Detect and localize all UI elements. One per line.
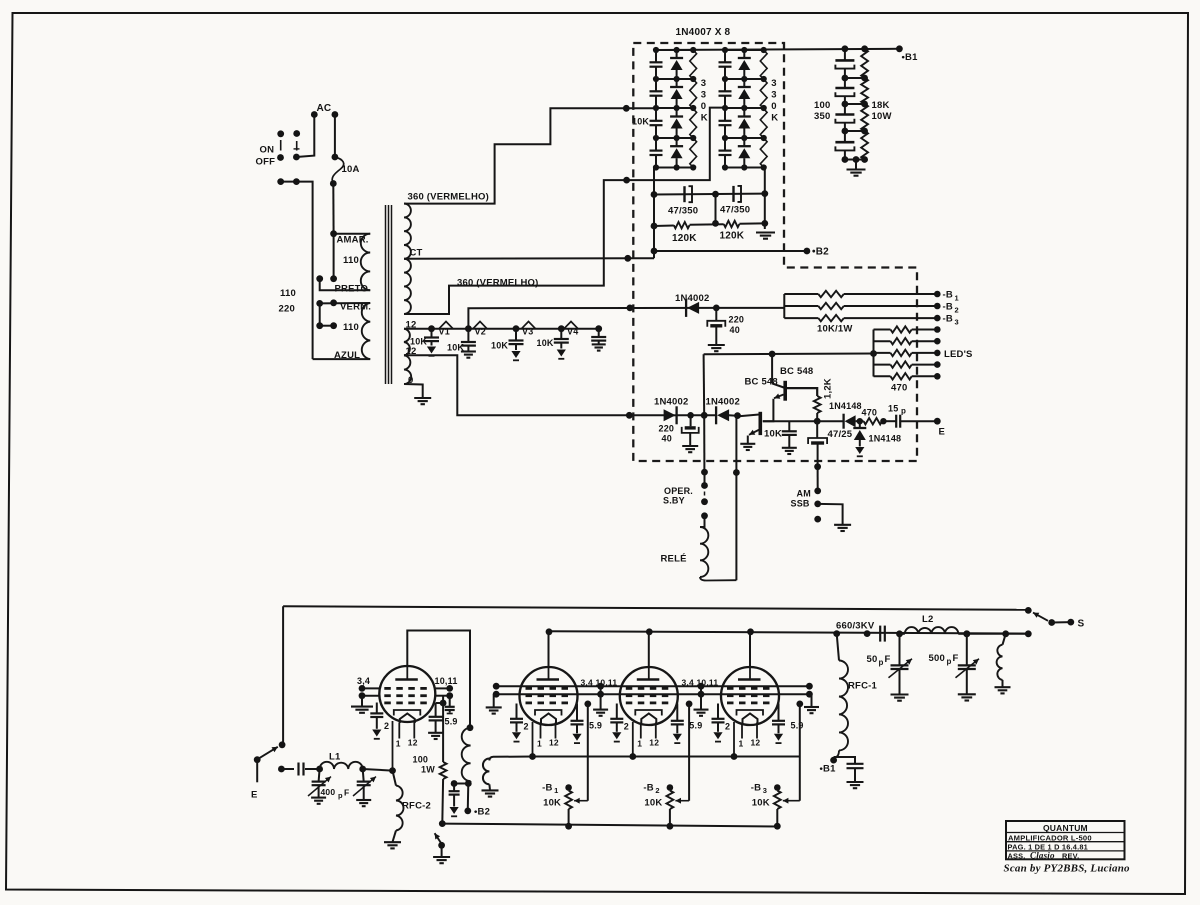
svg-text:10A: 10A [342,164,360,175]
node rectifier column 2 dots [722,47,728,53]
node LED R4 terminal [934,361,941,368]
wire L2 to output [967,633,1029,635]
capacitor 47/350 C5 [683,186,685,202]
ground grid rail left [486,706,502,708]
wire bias bus [442,824,777,827]
tube V1 envelope [379,666,435,722]
hop bump after V2 [473,322,487,329]
ground B1 bypass [847,781,864,783]
resistor 470 LED R3 [874,352,891,354]
capacitor input coupling [297,763,299,776]
diode 1N4148 D8 [817,420,843,422]
wire LED feed [704,353,874,356]
wire V2 grid bias tap [584,701,591,708]
node output coil dot [1002,630,1009,637]
wire primary bottom to bypass cap [454,783,468,785]
node antenna rail end dot [1025,607,1032,614]
svg-text:AM: AM [797,489,811,499]
node terminal -B1 [565,784,572,791]
svg-text:15: 15 [888,404,898,414]
svg-text:10K: 10K [632,117,649,127]
wire L1 to cathode node [363,769,393,771]
svg-text:RFC-2: RFC-2 [402,801,431,812]
svg-text:LED'S: LED'S [944,349,973,360]
wire Q1 emitter to Q2 base [763,399,774,421]
resistor 330K column 2 [760,50,767,168]
svg-text:REV.: REV. [1062,851,1079,860]
transformer T1 primary winding lower 110 [362,303,370,359]
tube V3 plate [648,667,650,680]
capacitor 47/25 [816,421,818,437]
tube V4 heater pins 1 12 [741,723,743,739]
svg-text:L2: L2 [922,614,934,625]
node plate rail dot V4 [747,628,754,635]
wire SSB to ground [818,504,843,525]
svg-text:47/25: 47/25 [828,429,853,440]
resistor 470 LED R1 [874,329,891,331]
capacitor equalizing C22 [724,79,726,91]
svg-text:Clasio: Clasio [1030,851,1055,861]
tube V2 beam plate [535,710,562,716]
relay coil RELE [700,516,705,527]
svg-text:1N4148: 1N4148 [869,434,902,444]
node terminal -B2 [667,784,674,791]
wire grid rail right ground lead [811,694,813,707]
ground bias switch [433,856,450,858]
svg-text:12: 12 [549,738,559,748]
node terminal B1 plus [896,45,903,52]
node terminal B2 [804,248,811,255]
svg-text:40: 40 [662,434,672,444]
wire plate lead V2 [548,632,550,668]
wire CT to filter block [404,257,654,260]
node LED R3 terminal [934,350,941,357]
capacitor equalizing C13 [655,108,657,121]
svg-text:47/350: 47/350 [668,206,698,217]
node bias cap node dot [687,412,694,419]
diode 1N4148 D9 shunt [859,421,861,428]
node Q2 collector dot [734,412,741,419]
capacitor 100/350 stack C1 [844,49,846,61]
node terminal -B3 [934,315,941,322]
wire relay left line upper [703,415,705,472]
svg-text:BC 548: BC 548 [745,377,778,388]
wire rectifier top rail to B1 [655,49,900,50]
svg-text:p: p [947,657,952,666]
svg-text:1N4002: 1N4002 [706,397,740,408]
capacitor V4 5.9 right bypass [778,704,780,721]
node heater tap V4 [558,325,565,332]
ground filter block [756,231,775,233]
svg-text:2: 2 [955,306,959,315]
ground grid rail right [804,706,819,708]
wire LED left vertical [873,330,875,377]
capacitor 220/40 C7 [715,308,717,321]
wire V1 left ground [361,696,363,707]
node filter caps mid dot [712,191,719,198]
tube V4 beam plate [737,710,764,716]
node L1 input dot [278,766,285,773]
svg-text:AMPLIFICADOR L-500: AMPLIFICADOR L-500 [1008,833,1092,842]
wire B1 stack rungs [845,77,865,79]
node terminal E bias [934,418,941,425]
svg-text:1N4148: 1N4148 [829,401,862,411]
svg-text:3: 3 [701,78,706,89]
node B1 stack dots [842,45,849,52]
tube V1 heater pins 1 12 [398,723,400,739]
resistor 1.2K [787,388,817,396]
svg-text:OPER.: OPER. [664,486,693,496]
svg-text:100: 100 [413,755,429,765]
svg-text:1: 1 [955,294,959,303]
resistor 470 LED R5 [874,375,891,377]
svg-text:V4: V4 [567,327,578,337]
node terminal -B1 [934,291,941,298]
capacitor heater end bypass [595,325,602,332]
node L2 left dot [896,630,903,637]
switch bias bus shorting [439,820,446,827]
svg-text:K: K [701,113,708,124]
svg-text:L1: L1 [329,752,341,763]
svg-text:220: 220 [729,315,745,325]
tube V1 plate lead to interstage [407,631,470,728]
node dot at box edge neg supply [627,305,634,312]
svg-text:12: 12 [751,738,761,748]
wire RFC-1 bottom to bypass cap [834,757,855,764]
svg-text:5.9: 5.9 [445,717,458,727]
svg-text:10K: 10K [752,798,770,809]
wire Q1 base network row [763,420,817,422]
node D8 cathode dot [856,420,864,422]
svg-text:220: 220 [279,304,295,315]
node plate rail end dot [1025,630,1032,637]
svg-text:2: 2 [524,722,529,732]
wire plate lead V3 [648,632,650,668]
transformer T1 primary winding upper 110 [334,233,371,235]
svg-text:VERM.: VERM. [340,301,371,312]
capacitor equalizing C14 [655,138,657,151]
svg-text:-B: -B [943,314,953,325]
wire filter left vertical [653,168,655,259]
svg-text:3,4: 3,4 [357,676,370,686]
svg-text:1: 1 [396,739,401,749]
tube V1 cathode [400,714,415,724]
tube V3 cathode lead [632,722,634,757]
wire Q2 emitter to ground [747,436,749,444]
node terminal B2 feed [464,808,471,815]
capacitor V3 5.9 right bypass [676,704,678,721]
wire plate lead V4 [749,632,751,668]
resistor 120K R1 [674,222,690,228]
svg-text:1: 1 [554,786,558,795]
wire rectifier column 2 rungs [725,49,764,51]
hop bump after V4 [564,322,578,329]
svg-text:120K: 120K [672,233,697,244]
resistor 470 LED R4 [874,364,891,366]
capacitor 660/3KV [879,626,881,642]
tube V1 pins 10 11 right [435,687,450,689]
wire heater 12 rail [404,328,599,330]
wire filter resistor row [654,225,674,228]
variable capacitor 400pF left [319,769,320,782]
tube V4 cathode lead [733,722,735,757]
wire V4 grid bias tap [796,701,803,708]
node cathode junction tube1 [389,767,396,774]
ground V1 grid left [351,706,373,708]
capacitor equalizing C11 [655,50,657,62]
svg-text:V2: V2 [475,327,486,337]
node relay right dot [733,469,740,476]
svg-text:-B: -B [643,783,653,794]
tube V3 heater pins 1 12 [640,723,642,739]
wire caps mid to resistors mid [715,194,717,223]
node LED R1 terminal [934,326,941,333]
svg-text:110: 110 [280,288,296,299]
switch S1 ON/OFF poles [280,140,282,151]
tube V3 grid dashes [626,687,633,690]
svg-text:Scan by PY2BBS, Luciano: Scan by PY2BBS, Luciano [1004,863,1131,875]
svg-text:5.9: 5.9 [589,721,602,731]
capacitor equalizing C12 [655,79,657,91]
wire B2 rail [654,250,807,252]
svg-text:OFF: OFF [256,157,276,168]
capacitor V1 left bypass [376,703,378,714]
wire bias switch to ground [441,845,443,857]
wire heater 12 lower to bias row [404,355,665,415]
svg-text:p: p [879,658,884,667]
ground grid junction tube3-4 [694,709,709,711]
choke RFC-1 [837,634,839,661]
tube V1 beam plate [394,710,421,716]
node Q1 base node dot [814,418,821,425]
svg-text:360 (VERMELHO): 360 (VERMELHO) [408,192,489,203]
svg-text:1N4007 X 8: 1N4007 X 8 [676,27,731,38]
resistor 10K/1W R-B2 [784,305,818,307]
svg-text:QUANTUM: QUANTUM [1043,823,1088,833]
svg-text:1N4002: 1N4002 [675,293,709,304]
switch AM SSB contacts [814,463,821,470]
svg-text:3,4 10,11: 3,4 10,11 [581,678,618,688]
ground RFC-2 [384,841,401,843]
diode 1N4007 D22 [743,79,745,87]
wire antenna top rail [283,606,1028,610]
resistor 18K stack R2 [861,78,868,104]
svg-text:PRETO: PRETO [335,284,369,295]
diode 1N4007 D11 [676,50,678,58]
node grid rail junction tube2-3 [597,683,604,690]
ground interstage secondary [482,789,499,791]
wire grid rail left ground lead [493,694,495,707]
capacitor 220/40 C8 [690,415,692,426]
wire 360 lower to rectifier [404,108,725,314]
svg-text:-B: -B [751,783,761,794]
svg-text:•B1: •B1 [820,764,837,775]
svg-text:110: 110 [343,255,359,266]
svg-text:RELÉ: RELÉ [661,554,687,565]
resistor 470 LED R2 [874,340,891,342]
node grid rail left dots [493,683,500,690]
svg-text:220: 220 [659,424,675,434]
resistor 100 1W [440,762,447,779]
wire AM SSB line from 47/25 [817,467,819,491]
node terminal B1 feed [833,758,836,761]
svg-text:V3: V3 [522,327,533,337]
svg-text:1: 1 [537,739,542,749]
svg-text:S: S [1078,619,1085,630]
wire neg supply node to resistors [716,307,784,309]
wire grid rail upper [496,685,809,687]
svg-text:AC: AC [317,103,332,114]
tube V4 grid dashes [727,687,734,690]
resistor 10K/1W R-B3 [784,317,818,319]
svg-text:-B: -B [542,783,552,794]
svg-text:SSB: SSB [791,499,810,509]
node row2 dots [277,178,284,185]
svg-text:1: 1 [637,739,642,749]
inductor L1 [316,766,323,773]
node cathode bus dot V2 [529,753,536,760]
svg-text:ASS.: ASS. [1008,851,1026,860]
svg-text:1,2K: 1,2K [823,378,834,399]
ground V1 5.9 bypass [428,732,443,734]
svg-text:3: 3 [763,786,767,795]
diode 1N4007 D12 [676,79,678,87]
fuse F1 10A [334,115,336,158]
resistor 330K column 1 [690,50,697,168]
switch S2 input [279,741,286,748]
diode 1N4007 D13 [676,108,678,117]
transformer T1 secondary HV winding 360-CT-360 [404,204,411,259]
wire cathode bus [533,756,800,758]
svg-text:K: K [771,113,778,124]
ground AM SSB [834,524,851,526]
svg-text:2: 2 [655,786,659,795]
hop bump after V1 [439,322,453,329]
svg-text:F: F [885,654,891,665]
wire mains row 2 [281,182,313,360]
wire 360 upper to rectifier [404,108,656,203]
svg-text:10K: 10K [543,798,561,809]
wire cap to L1 [305,768,320,770]
node LED R5 terminal [934,373,941,380]
switch OPER S.BY contacts [701,469,708,476]
capacitor 47/350 C6 [732,186,734,202]
node terminal -B2 [934,303,941,310]
svg-text:-B: -B [943,290,953,301]
node 470 to 15p dot [882,420,896,422]
ground 0 winding [414,397,431,399]
wire filter caps row [654,193,765,196]
tube V2 plate [548,667,550,680]
resistor 470 input [864,418,882,424]
svg-text:3: 3 [955,318,959,327]
capacitor 100/350 stack C3 [844,104,846,115]
svg-text:40: 40 [730,325,740,335]
diode 1N4007 D23 [743,108,745,117]
svg-text:1N4002: 1N4002 [654,397,688,408]
capacitor V3 cathode left bypass [616,704,618,719]
row bias rectifier wires [665,414,676,416]
tube V2 cathode lead [532,722,534,757]
tube V3 beam plate [635,710,662,716]
capacitor equalizing C21 [724,50,726,62]
inductor output shunt [1003,634,1006,645]
capacitor V4 cathode left bypass [717,704,719,719]
svg-text:•B1: •B1 [902,52,919,63]
ground output shunt coil [995,686,1011,688]
interstage transformer primary [467,724,474,731]
node AC right dot [332,111,339,118]
svg-text:350: 350 [814,111,830,122]
ground emitter bypass [782,447,797,449]
svg-text:•B2: •B2 [474,807,490,818]
svg-text:120K: 120K [720,231,745,242]
svg-text:18K: 18K [872,100,890,111]
variable capacitor 400pF right [363,769,364,782]
diode 1N4007 D14 [676,138,678,146]
capacitor V2 5.9 right bypass [576,704,578,721]
wire relay right line [735,416,737,581]
svg-text:F: F [344,788,349,798]
ground B1 stack [847,168,866,170]
resistor 18K stack R3 [861,104,868,131]
transformer T1 voltage selector jumper [319,303,321,325]
svg-text:47/350: 47/350 [720,205,750,216]
capacitor V1 right small bypass [449,696,451,707]
wire bias feed vertical [783,294,785,318]
svg-text:p: p [901,407,906,416]
svg-text:F: F [953,653,959,664]
capacitor interstage bypass [453,784,455,792]
node grid rail right dots [806,683,813,690]
svg-text:470: 470 [862,408,878,418]
svg-text:660/3KV: 660/3KV [836,621,875,632]
wire filter right vertical [764,168,766,230]
choke RFC-2 [393,771,397,786]
capacitor equalizing C23 [724,108,726,121]
switch S1 OFF row contacts [277,154,284,161]
diode 1N4002 D5 neg supply [685,299,687,317]
node dot at box edge CT [624,255,631,262]
wire 15p to E terminal [900,420,937,422]
wire LED feed drop to bias row [703,354,706,415]
tube V2 heater pins 1 12 [540,723,542,739]
node rectifier column 1 dots [653,47,659,53]
interstage transformer secondary [489,757,532,761]
wire plate rail [549,631,1028,633]
node dot at box edge 360 lower [623,177,630,184]
capacitor V2 cathode left bypass [516,704,518,719]
ground C7 [708,344,725,346]
ground Q2 emitter [740,443,755,445]
wire B1 stack to ground [855,160,857,170]
svg-text:3: 3 [701,90,706,101]
svg-text:3: 3 [771,90,776,101]
svg-text:1: 1 [739,739,744,749]
svg-text:12: 12 [408,738,418,748]
capacitor 15p [895,415,897,428]
tube V2 cathode [541,714,556,724]
tube V4 plate [749,667,751,680]
capacitor equalizing C24 [724,138,726,151]
svg-text:AMAR.: AMAR. [337,235,369,246]
svg-text:ON: ON [260,145,275,156]
diode 1N4002 D7 [715,406,717,424]
wire grid rail lower [496,693,809,695]
svg-text:470: 470 [891,383,907,394]
svg-text:-B: -B [943,302,953,313]
node relay line junction dot [701,412,708,419]
